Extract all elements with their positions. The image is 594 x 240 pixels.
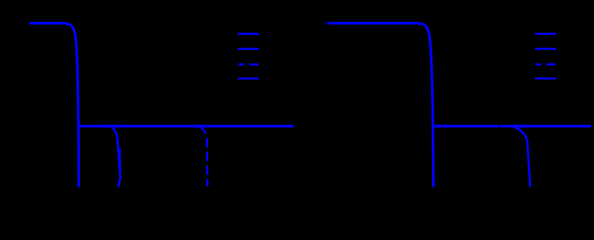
right legend key 4 (solid): [535, 77, 556, 79]
left panel: stopband notch (dashed): [200, 127, 208, 186]
right panel: dim gap filler in floor: [499, 125, 500, 127]
left panel: stopband notch (solid): [111, 127, 121, 187]
right legend key 1 (solid): [535, 33, 556, 35]
right legend key 3 (dashed): [535, 63, 555, 65]
left panel: filter magnitude curve (passband + transition): [30, 23, 79, 187]
left panel: feathered line tip: [29, 22, 30, 24]
left legend key 4 (solid): [238, 77, 259, 79]
right panel: stopband floor line (right of gap): [500, 125, 591, 128]
left panel: notch companion segment: [120, 148, 121, 170]
left legend key 1 (solid): [238, 33, 259, 35]
right panel: stopband floor line (left of gap): [432, 125, 499, 128]
right panel: filter magnitude curve (passband + transition): [328, 23, 433, 187]
left legend key 3 (dashed): [238, 63, 258, 65]
right legend key 2 (solid): [535, 48, 556, 50]
right panel: leading dash blip: [326, 22, 327, 25]
left panel: stopband floor line: [77, 125, 293, 128]
left legend key 2 (solid): [238, 48, 259, 50]
right panel: stopband notch (solid): [514, 127, 531, 187]
